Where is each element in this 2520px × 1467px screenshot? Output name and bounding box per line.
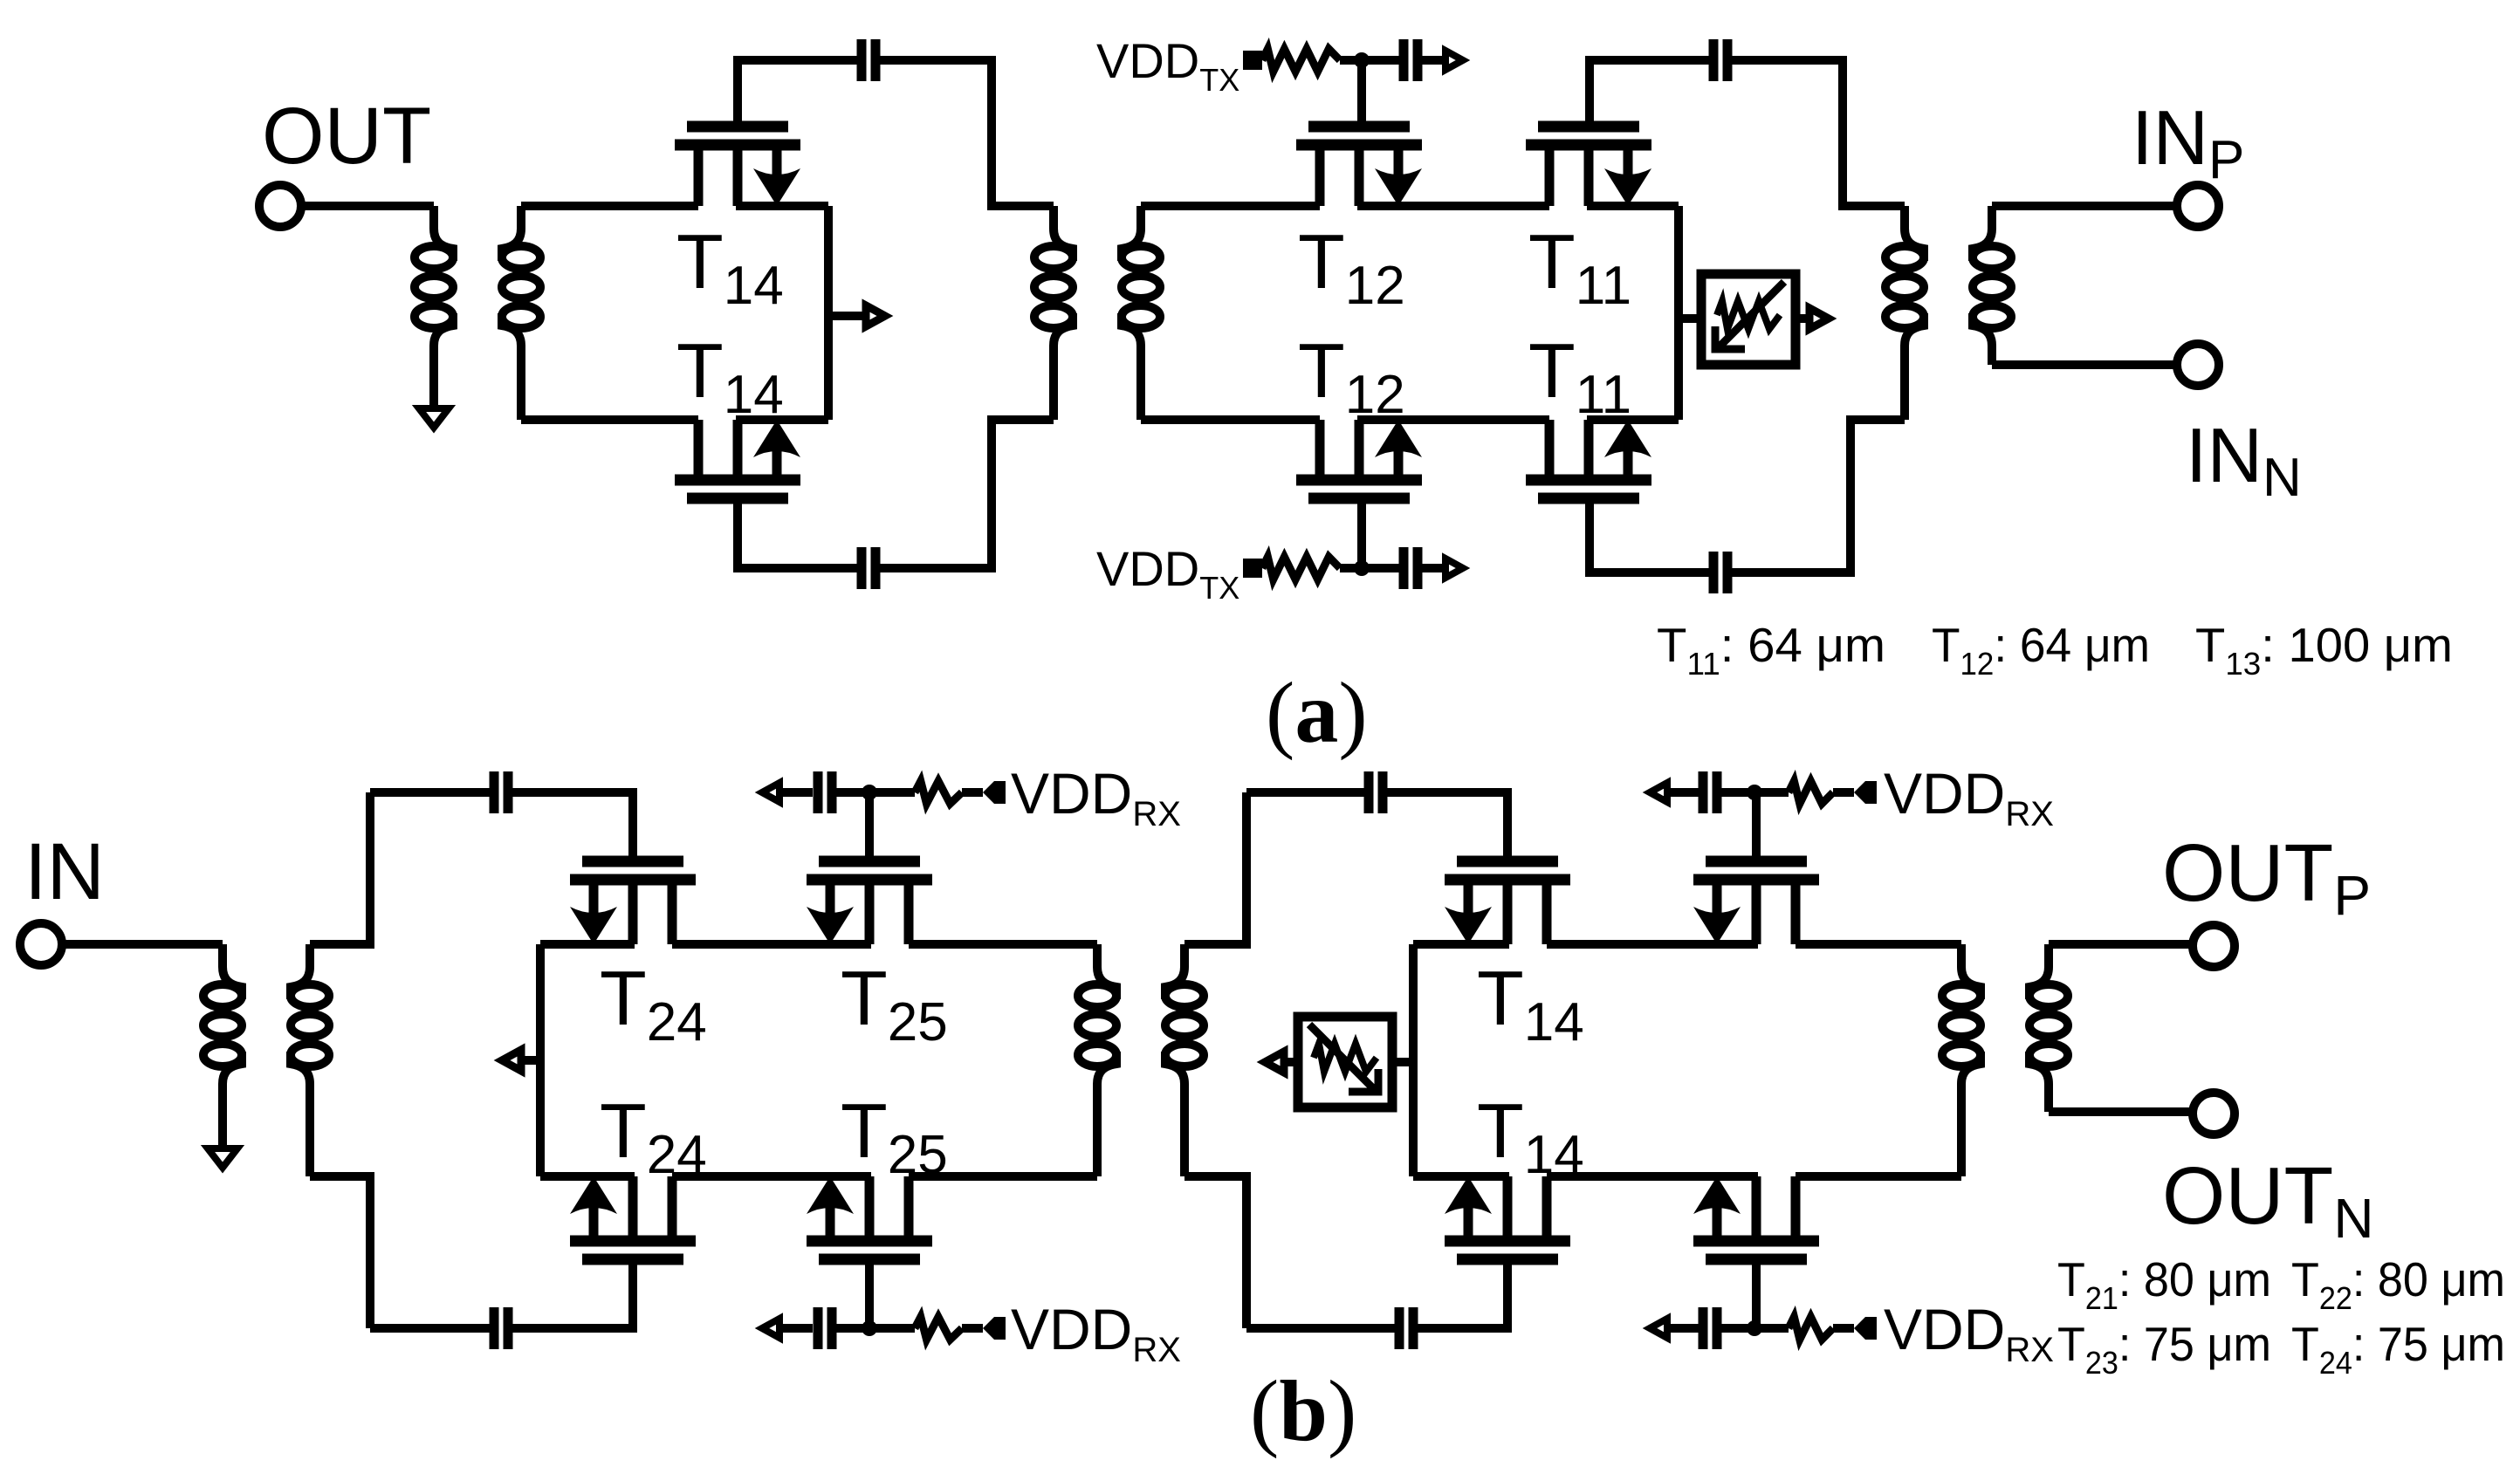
svg-text:(b): (b) [1250, 1362, 1356, 1459]
capacitor C8 (VDD_RX top left bypass) [818, 771, 832, 813]
node VDD_TX top square [1243, 51, 1262, 70]
wire drain bus b-right [1409, 944, 1418, 1176]
wire B2 to cap C11 [1246, 788, 1364, 797]
transistor T25 bottom [807, 1176, 932, 1259]
svg-text:T24: T24 [600, 1087, 707, 1185]
transformer A2 secondary coil [1122, 206, 1160, 346]
wire R5 to square [1833, 788, 1854, 797]
wire B3 secondary bottom extension [2044, 1084, 2053, 1112]
transformer A3 primary coil [1885, 206, 1924, 346]
wire drain bus b-left [536, 944, 545, 1176]
capacitor C3 (VDD_TX top bypass) [1404, 39, 1418, 81]
svg-text:INP: INP [2132, 94, 2244, 190]
wire A3 secondary bottom extension [1988, 346, 1996, 365]
node VDD_RX top right square [1854, 781, 1877, 804]
node VDD_RX bottom left square [983, 1317, 1006, 1340]
terminal OUT_N [2193, 1093, 2235, 1135]
wire T12 top gate [1357, 60, 1366, 127]
resistor R3 (VDD_RX top left) [915, 781, 962, 804]
ground [208, 1148, 237, 1168]
transistor T14 bottom (b) [1445, 1176, 1570, 1259]
node T25 bottom gate junction [862, 1320, 877, 1336]
wire T14 top drain rail [736, 202, 828, 210]
wire B1 secondary top jog [310, 792, 370, 944]
node VDD_TX top arrow [1445, 51, 1463, 70]
wire B1 secondary bottom jog [310, 1176, 370, 1328]
wire T25 bottom source to transformer B2 [909, 1172, 1097, 1181]
node VDD_TX bottom square [1243, 559, 1262, 578]
wire C8 to junction [836, 788, 915, 797]
svg-text:OUT: OUT [262, 92, 431, 181]
wire arrow to cap C12 [1669, 788, 1699, 797]
resistor R4 (VDD_RX bottom left) [915, 1317, 962, 1340]
wire A1 secondary top to T14 source [521, 202, 698, 210]
transistor T14 bottom [675, 420, 800, 498]
node T12 top gate junction [1354, 52, 1370, 68]
wire T12 top drain to T11 source [1357, 202, 1549, 210]
wire IN to transformer B1 [60, 940, 223, 949]
wire A3 secondary top to IN_P [1992, 202, 2177, 210]
wire C9 to T24 bottom gate [512, 1259, 633, 1328]
node VDD_RX arrow (top right) [1650, 783, 1667, 802]
transformer B1 secondary coil [291, 944, 329, 1084]
capacitor C5 (T11 top gate coupling) [1713, 39, 1727, 81]
wire B2 secondary bottom extension [1180, 1084, 1189, 1176]
wire drain bus middle stage [1674, 206, 1683, 420]
svg-text:T14: T14 [676, 327, 784, 425]
wire A1 secondary bottom extension [517, 346, 525, 420]
node cascode bottom gate junction [1747, 1320, 1762, 1336]
capacitor C12 (VDD_RX top right bypass) [1703, 771, 1717, 813]
wire T11 bottom gate to cap C6 [1590, 498, 1709, 572]
transistor cascode bottom (b) [1693, 1176, 1819, 1259]
wire C13 to T14 bottom gate [1418, 1259, 1507, 1328]
svg-text:(a): (a) [1266, 664, 1368, 761]
wire A2 secondary bottom to T12 source [1141, 415, 1320, 424]
wire B1 to cap C9 [370, 1324, 490, 1333]
wire A1 primary to ground [429, 346, 438, 408]
transformer A1 secondary coil [502, 206, 540, 346]
svg-text:T24: 75 μm: T24: 75 μm [2291, 1317, 2505, 1381]
wire junction to cap C3 [1362, 56, 1399, 65]
wire T25 top source to transformer B2 [909, 940, 1097, 949]
wire C3 to arrow [1422, 56, 1442, 65]
svg-text:T11: T11 [1528, 218, 1631, 316]
wire T24 bottom source to T25 bottom drain [672, 1172, 871, 1181]
wire T24 top source to T25 top drain [672, 940, 871, 949]
varactor VC1 [1701, 274, 1796, 365]
wire T14 bottom (b) drain rail [1413, 1172, 1509, 1181]
wire C7 to T24 top gate [512, 792, 633, 861]
wire T14 bottom gate to coupling cap [738, 498, 857, 568]
resistor R1 (VDD_TX top) [1262, 49, 1340, 72]
capacitor C4 (VDD_TX bottom bypass) [1404, 547, 1418, 589]
node varactor VC1 arrow [1809, 308, 1829, 329]
wire A3 primary bottom extension [1900, 346, 1909, 420]
wire T14 top (b) drain rail [1413, 940, 1509, 949]
wire OUT to transformer primary [299, 202, 434, 210]
transformer B2 primary coil [1078, 944, 1116, 1084]
svg-text:VDDRX: VDDRX [1011, 761, 1181, 833]
svg-text:T21: 80 μm: T21: 80 μm [2057, 1252, 2271, 1316]
node tap arrow b-left [502, 1050, 521, 1071]
capacitor C10 (VDD_RX bottom left bypass) [818, 1307, 832, 1349]
transformer B3 primary coil [1942, 944, 1981, 1084]
wire R3 to square [962, 788, 983, 797]
resistor R5 (VDD_RX top right) [1789, 781, 1833, 804]
wire arrow to cap C10 [781, 1324, 813, 1333]
svg-text:VDDRX: VDDRX [1884, 761, 2054, 833]
svg-text:VDDRX: VDDRX [1884, 1297, 2054, 1369]
wire A2 secondary top to T12 source [1141, 202, 1320, 210]
wire T14 bottom source to cascode drain [1547, 1172, 1758, 1181]
svg-text:T25: T25 [841, 1087, 948, 1185]
wire bus to varactor VC1 [1679, 314, 1701, 323]
wire B1 secondary bottom extension [306, 1084, 314, 1176]
capacitor C11 (T14 top gate coupling) [1369, 771, 1383, 813]
wire arrow to varactor VC2 [1286, 1058, 1298, 1066]
transformer A1 primary coil [415, 206, 453, 346]
transistor T11 bottom [1526, 420, 1651, 498]
wire C12 to junction [1721, 788, 1789, 797]
wire C6 to transformer A3 [1732, 420, 1905, 572]
wire C14 to junction [1721, 1324, 1789, 1333]
node cascode top gate junction [1747, 785, 1762, 800]
transformer B1 primary coil [203, 944, 242, 1084]
wire R6 to square [1833, 1324, 1854, 1333]
wire A2 secondary bottom extension [1136, 346, 1145, 420]
capacitor C1 (gate coupling top) [862, 39, 875, 81]
svg-text:VDDTX: VDDTX [1096, 33, 1239, 98]
wire T14 top gate to coupling cap [738, 60, 857, 127]
wire T11 top drain rail [1587, 202, 1679, 210]
transistor T11 top [1526, 127, 1651, 206]
wire arrow to cap C8 [781, 788, 813, 797]
transformer B3 secondary coil [2029, 944, 2068, 1084]
wire B3 secondary bottom to OUT_N [2049, 1107, 2193, 1116]
wire A1 secondary bottom to T14 source [521, 415, 698, 424]
wire varactor VC2 to bus [1392, 1058, 1413, 1066]
wire cascode bottom source to transformer B3 [1796, 1172, 1961, 1181]
wire C10 to junction [836, 1324, 915, 1333]
node varactor VC2 arrow [1265, 1052, 1284, 1073]
wire junction to cap C4 [1362, 564, 1399, 572]
transistor T12 top [1296, 127, 1422, 206]
svg-text:T12: T12 [1298, 327, 1405, 425]
node VDD_RX bottom right square [1854, 1317, 1877, 1340]
capacitor C14 (VDD_RX bottom right bypass) [1703, 1307, 1717, 1349]
capacitor C13 (T14 bottom gate coupling) [1399, 1307, 1413, 1349]
transistor T24 top [570, 861, 696, 944]
varactor VC2 [1298, 1017, 1392, 1107]
svg-text:T22: 80 μm: T22: 80 μm [2291, 1252, 2505, 1316]
wire output tap stub [828, 312, 866, 320]
wire cascode bottom gate [1752, 1259, 1761, 1328]
wire T11 top gate to cap C5 [1590, 60, 1709, 127]
terminal IN [20, 923, 62, 965]
node T12 bottom gate junction [1354, 560, 1370, 576]
capacitor C2 (gate coupling bottom) [862, 547, 875, 589]
wire T12 bottom gate [1357, 498, 1366, 568]
wire T24 bottom drain rail [540, 1172, 635, 1181]
svg-text:T14: T14 [1477, 1087, 1584, 1185]
wire B3 secondary top to OUT_P [2049, 940, 2193, 949]
svg-text:OUTN: OUTN [2162, 1150, 2374, 1250]
node VDD_RX top left square [983, 781, 1006, 804]
terminal IN_N [2177, 344, 2219, 386]
svg-text:T25: T25 [841, 955, 948, 1052]
node T25 top gate junction [862, 785, 877, 800]
wire B2 secondary bottom jog [1184, 1176, 1246, 1328]
transistor T14 top [675, 127, 800, 206]
wire A2 primary bottom extension [1049, 346, 1058, 420]
wire B2 to cap C13 [1246, 1324, 1395, 1333]
node VDD_TX bottom arrow [1445, 559, 1463, 578]
wire cascode top source to transformer B3 [1796, 940, 1961, 949]
wire C5 to transformer A3 [1732, 60, 1905, 206]
terminal OUT_P [2193, 925, 2235, 967]
wire C11 to T14 top gate [1387, 792, 1507, 861]
wire drain bus stage-left [824, 206, 833, 420]
svg-text:IN: IN [24, 827, 105, 916]
node VDD_RX arrow (top left) [762, 783, 779, 802]
svg-text:T12: 64 μm: T12: 64 μm [1932, 618, 2150, 682]
wire cap C2 to transformer A2 [880, 420, 1054, 568]
resistor R2 (VDD_TX bottom) [1262, 557, 1340, 579]
svg-text:T11: 64 μm: T11: 64 μm [1657, 618, 1885, 682]
resistor R6 (VDD_RX bottom right) [1789, 1317, 1833, 1340]
wire T25 top gate [865, 792, 874, 861]
svg-text:VDDTX: VDDTX [1096, 541, 1239, 606]
node VDD_RX arrow (bottom right) [1650, 1319, 1667, 1338]
wire R1 to junction [1340, 56, 1362, 65]
wire cascode top gate [1752, 792, 1761, 861]
transistor T14 top (b) [1445, 861, 1570, 944]
svg-text:T12: T12 [1298, 218, 1405, 316]
svg-text:T11: T11 [1528, 327, 1631, 425]
capacitor C7 (T24 top gate coupling) [494, 771, 508, 813]
wire cap C1 to transformer A2 [880, 60, 1054, 206]
node VDD_RX arrow (bottom left) [762, 1319, 779, 1338]
transistor cascode top (b) [1693, 861, 1819, 944]
svg-text:INN: INN [2186, 412, 2302, 508]
wire T14 top source to cascode drain [1547, 940, 1758, 949]
wire B1 to cap C7 [370, 788, 490, 797]
wire T24 top drain rail [540, 940, 635, 949]
svg-text:T24: T24 [600, 955, 707, 1052]
wire R4 to square [962, 1324, 983, 1333]
wire B3 primary bottom extension [1957, 1084, 1966, 1176]
wire T25 bottom gate [865, 1259, 874, 1328]
transistor T24 bottom [570, 1176, 696, 1259]
wire B1 primary to ground [218, 1084, 227, 1148]
transistor T25 top [807, 861, 932, 944]
wire tap stub b-left [521, 1056, 540, 1065]
wire T11 bottom drain rail [1587, 415, 1679, 424]
svg-text:VDDRX: VDDRX [1011, 1297, 1181, 1369]
wire varactor VC1 to arrow [1796, 314, 1808, 323]
terminal IN_P [2177, 185, 2219, 227]
svg-text:T14: T14 [1477, 955, 1584, 1052]
wire C4 to arrow [1422, 564, 1442, 572]
node output tap arrow [866, 305, 885, 326]
transformer B2 secondary coil [1165, 944, 1204, 1084]
terminal OUT [259, 185, 301, 227]
svg-text:T13: 100 μm: T13: 100 μm [2195, 618, 2453, 682]
wire arrow to cap C14 [1669, 1324, 1699, 1333]
svg-text:OUTP: OUTP [2162, 827, 2371, 927]
wire R2 to junction [1340, 564, 1362, 572]
transformer A2 primary coil [1034, 206, 1073, 346]
capacitor C6 (T11 bottom gate coupling) [1713, 552, 1727, 593]
svg-text:T14: T14 [676, 218, 784, 316]
wire A3 secondary bottom to IN_N [1992, 360, 2177, 369]
svg-text:T23: 75 μm: T23: 75 μm [2057, 1317, 2271, 1381]
wire B2 primary bottom extension [1093, 1084, 1102, 1176]
ground [419, 408, 449, 428]
transistor T12 bottom [1296, 420, 1422, 498]
capacitor C9 (T24 bottom gate coupling) [494, 1307, 508, 1349]
wire B2 secondary top jog [1184, 792, 1246, 944]
wire T12 bottom drain to T11 source [1357, 415, 1549, 424]
wire T14 bottom drain rail [736, 415, 828, 424]
transformer A3 secondary coil [1973, 206, 2011, 346]
